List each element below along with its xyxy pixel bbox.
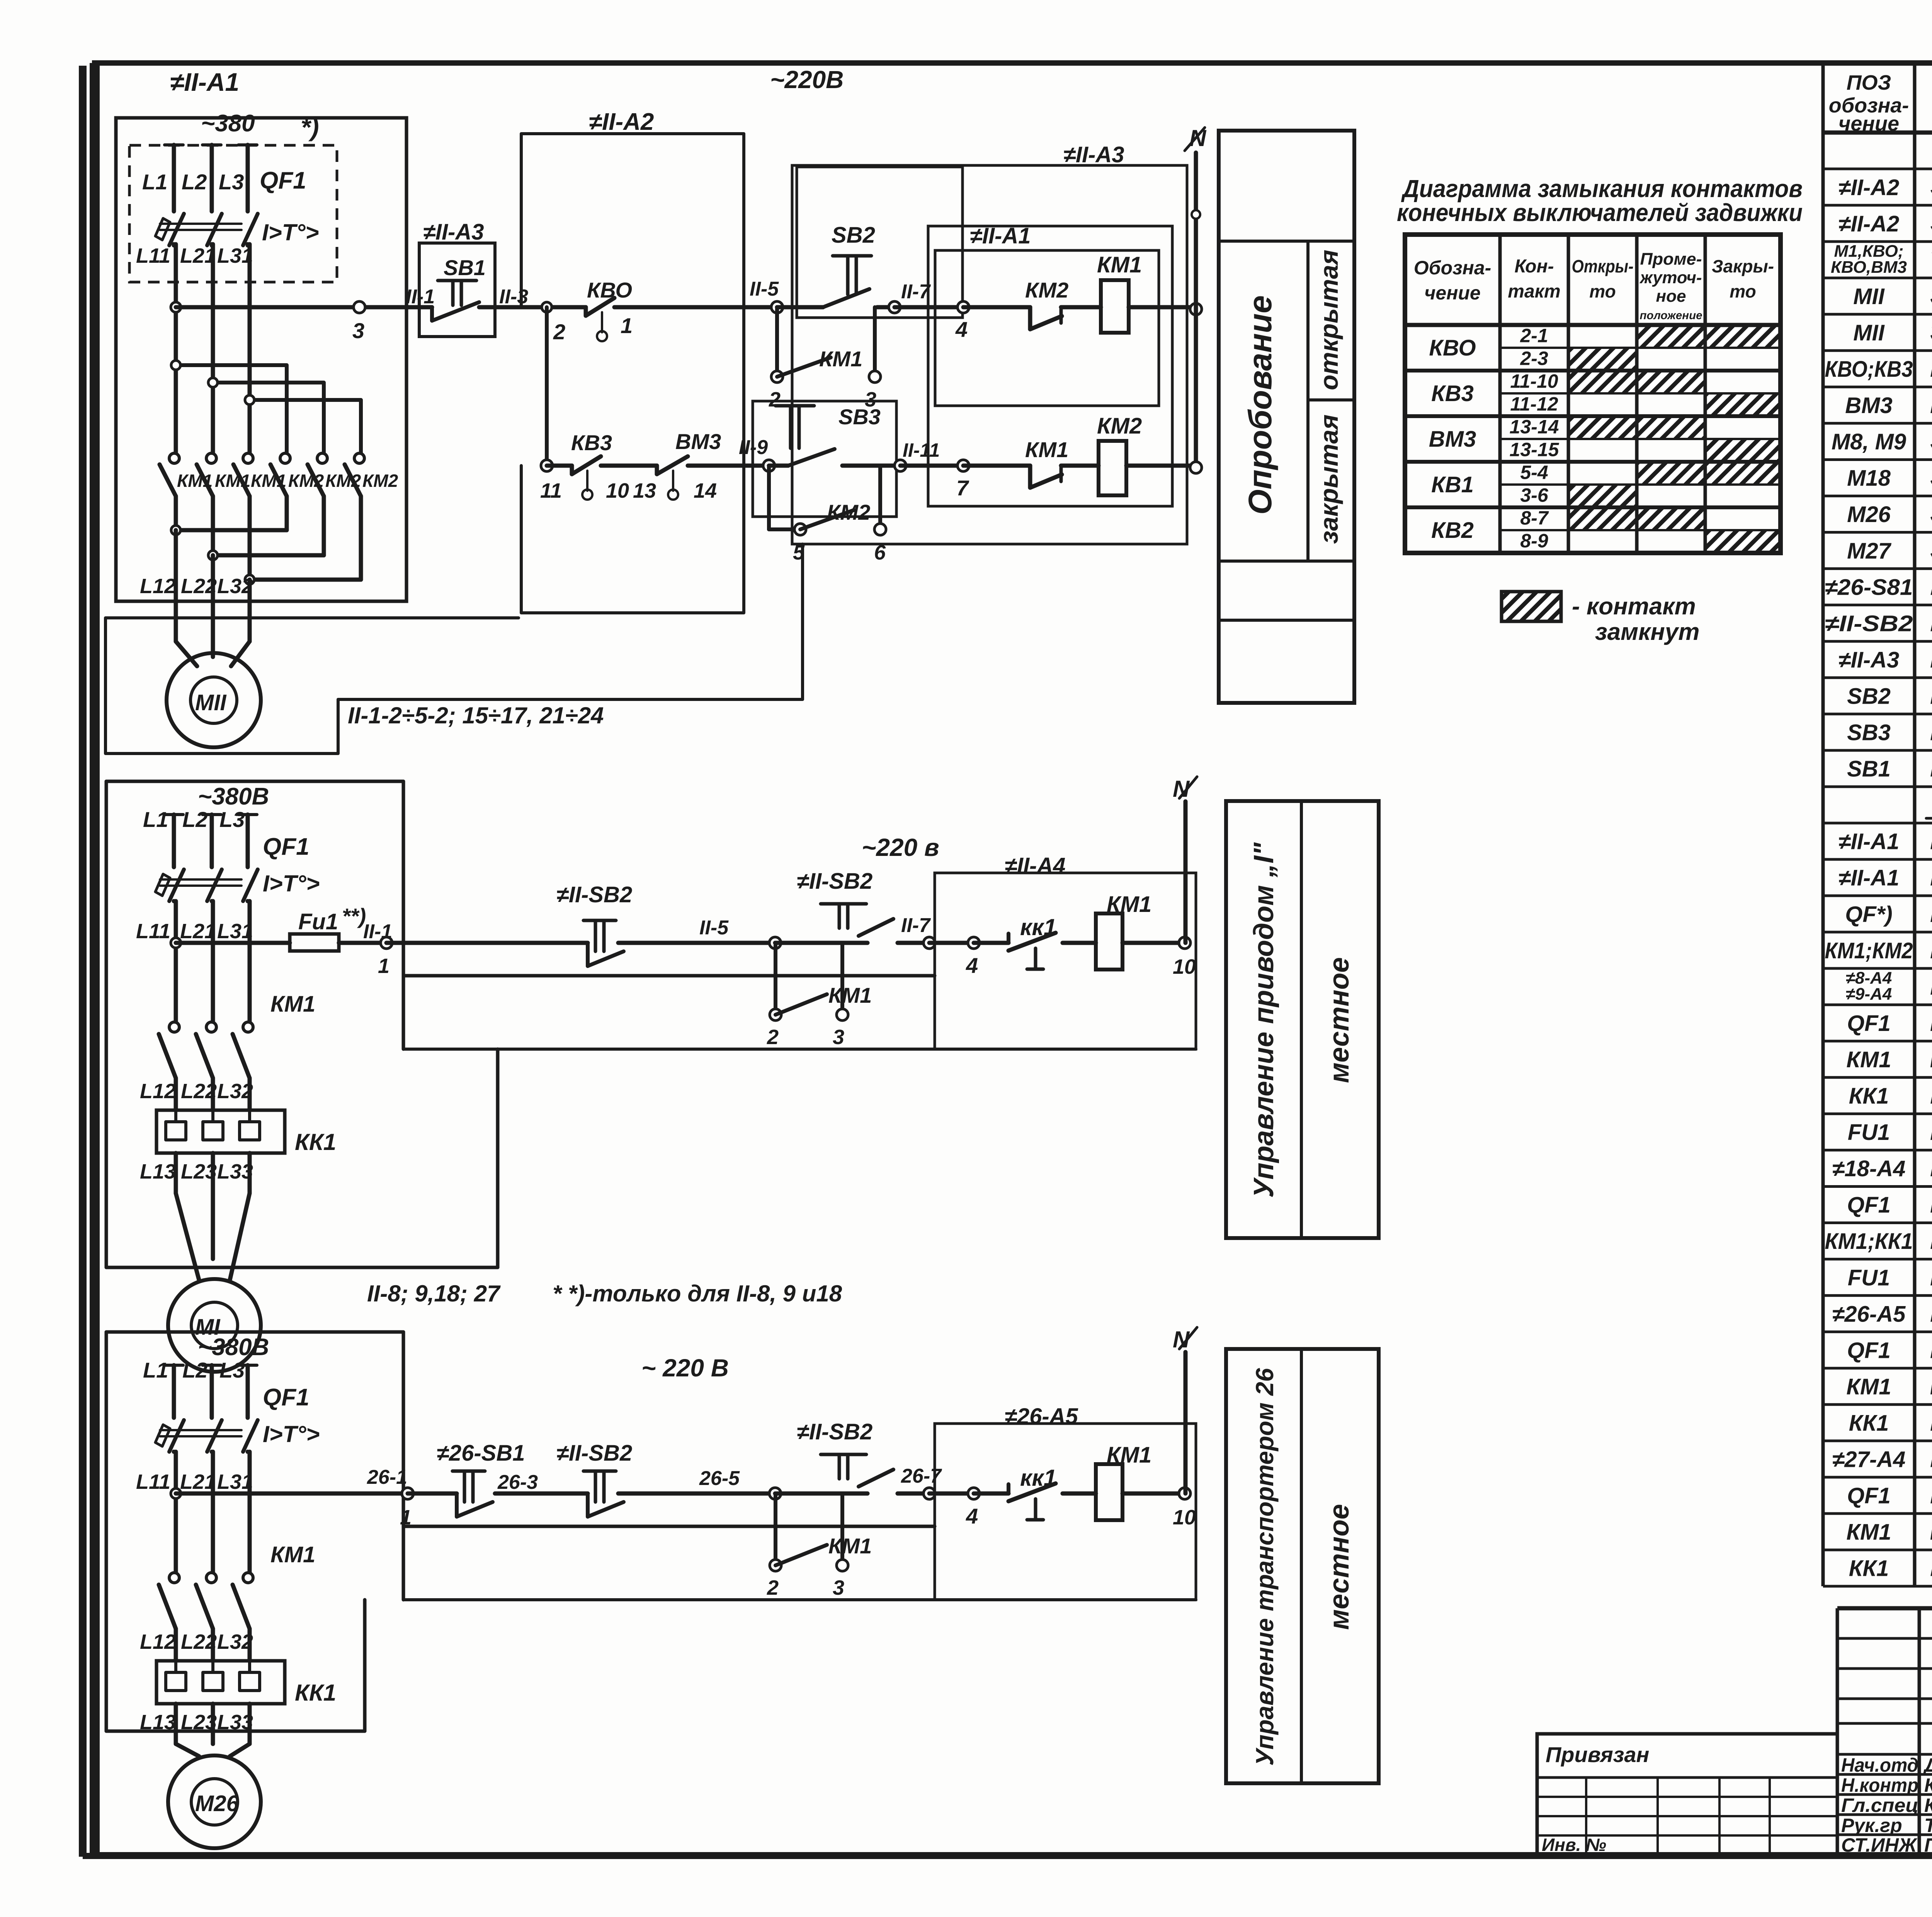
svg-text:≠II-А2: ≠II-А2 — [1838, 211, 1900, 236]
svg-text:Кудряшов: Кудряшов — [1924, 1774, 1932, 1796]
svg-text:≠II-А2: ≠II-А2 — [589, 109, 654, 135]
svg-text:≠II-А1: ≠II-А1 — [170, 68, 239, 96]
svg-text:13: 13 — [633, 479, 656, 502]
svg-text:26-3: 26-3 — [497, 1471, 538, 1493]
fuse FU1 body — [290, 934, 339, 951]
junction node to closing row — [542, 302, 552, 312]
stop button #II-SB2 symbol — [583, 919, 616, 922]
band 3 Upravlenie transporterom 26 box — [1226, 1349, 1379, 1783]
svg-text:М26: М26 — [195, 1791, 239, 1816]
block inner corner lines — [363, 1600, 367, 1731]
main control wire — [176, 1492, 408, 1496]
svg-text:Блок Б5130-3674УХЛ4: Блок Б5130-3674УХЛ4 — [1930, 1153, 1932, 1182]
svg-text:МII: МII — [1853, 284, 1885, 309]
stop button #II-SB2 symbol — [583, 1470, 616, 1473]
circuit breaker QF1 three poles — [165, 1364, 183, 1367]
node 26-1 — [402, 1488, 413, 1499]
svg-text:Привязан: Привязан — [1546, 1742, 1649, 1767]
frame left edge thick line — [90, 63, 100, 1855]
svg-text:Электродвигатель 4А180S4У3,~38: Электродвигатель 4А180S4У3,~380В; 22кВт — [1930, 463, 1932, 491]
svg-text:ПОЗ: ПОЗ — [1847, 71, 1891, 94]
svg-text:≠26-SB1: ≠26-SB1 — [437, 1441, 525, 1466]
svg-text:L11: L11 — [136, 1470, 170, 1493]
svg-text:SB2: SB2 — [832, 223, 875, 248]
svg-text:10: 10 — [606, 479, 629, 502]
wire KV3 to VM3 — [601, 464, 657, 468]
svg-text:КК1: КК1 — [1849, 1556, 1889, 1581]
svg-text:КК1: КК1 — [295, 1129, 336, 1155]
svg-text:ВМ3: ВМ3 — [1845, 393, 1892, 418]
svg-text:местное: местное — [1324, 957, 1355, 1083]
phase feeders down to KM1 poles — [174, 1452, 178, 1572]
svg-text:N1 - Ц, Ч, 2з, „откр": N1 - Ц, Ч, 2з, „откр" — [1930, 680, 1932, 709]
svg-text:≠II-А1: ≠II-А1 — [1838, 829, 1900, 854]
svg-text:≠II-А1: ≠II-А1 — [970, 223, 1031, 248]
privyazan box — [1537, 1734, 1837, 1855]
svg-text:5-4: 5-4 — [1520, 461, 1548, 483]
svg-text:МII: МII — [195, 690, 227, 715]
svg-text:N3 - Ц, К, 2р, „стоп": N3 - Ц, К, 2р, „стоп" — [1930, 754, 1932, 782]
svg-text:≠26-А5: ≠26-А5 — [1832, 1301, 1906, 1327]
block inner corner lines — [496, 1049, 500, 1267]
svg-text:L11: L11 — [136, 920, 170, 943]
branch wire down to closing row — [545, 307, 549, 466]
wire node 3 — [354, 301, 365, 313]
svg-text:II-5: II-5 — [750, 278, 779, 300]
svg-text:Пост ПКЕ 722-2У3, ТУ16.526: Пост ПКЕ 722-2У3, ТУ16.526 216-78 — [1930, 608, 1932, 636]
KM1 holding contact branch — [775, 307, 779, 377]
svg-text:L13: L13 — [140, 1160, 176, 1183]
node II-7 — [889, 301, 900, 313]
svg-text:I>T°>: I>T°> — [262, 219, 319, 245]
svg-text:чение: чение — [1838, 112, 1899, 135]
svg-text:≠9-А4: ≠9-А4 — [1846, 985, 1892, 1004]
svg-text:L3: L3 — [219, 1358, 245, 1382]
svg-text:4: 4 — [966, 1504, 978, 1528]
A-block box — [935, 1424, 1196, 1600]
svg-text:КМ1: КМ1 — [1846, 1047, 1891, 1072]
block #II-A1 outer enclosure — [928, 226, 1172, 506]
motor outer circle — [168, 1755, 261, 1848]
svg-text:L21: L21 — [180, 244, 216, 267]
svg-text:- контакт: - контакт — [1572, 593, 1696, 620]
motor inner circle — [191, 1779, 238, 1825]
svg-text:Управление приводом „I": Управление приводом „I" — [1248, 842, 1279, 1197]
svg-text:Выключатель АЕ2026-10НУ3Б, Iр=: Выключатель АЕ2026-10НУ3Б, Iр=10А — [1930, 899, 1932, 927]
svg-text:КМ2: КМ2 — [1097, 413, 1142, 439]
KM2 holding contact branch row2 — [767, 466, 771, 529]
supply enclosure — [106, 1330, 403, 1334]
svg-text:II-1: II-1 — [363, 920, 392, 943]
QF1 dashed enclosure — [129, 145, 337, 282]
frame left heavy scan bar — [79, 66, 87, 1857]
svg-text:L1: L1 — [143, 1358, 168, 1382]
svg-text:3: 3 — [833, 1026, 844, 1049]
svg-text:Опробование: Опробование — [1242, 295, 1278, 515]
svg-text:II-7: II-7 — [901, 281, 931, 303]
svg-text:SB3: SB3 — [1847, 720, 1891, 745]
svg-text:Пускатель ПМЛ2 10004В с приста: Пускатель ПМЛ2 10004В с приставкой ПКЛ22… — [1930, 1044, 1932, 1073]
svg-text:КВО: КВО — [1429, 335, 1476, 361]
svg-text:QF1: QF1 — [263, 833, 310, 860]
supply enclosure — [106, 780, 403, 783]
svg-text:2: 2 — [767, 1576, 779, 1599]
svg-text:Предохранитель ППТ-10у3, Iпл: Предохранитель ППТ-10у3, Iпл вст=6А — [1930, 1117, 1932, 1145]
svg-text:Техническое описание электроп: Техническое описание электропривода — [1930, 245, 1932, 273]
svg-text:QF1: QF1 — [1847, 1483, 1891, 1509]
circuit breaker QF1 three poles — [165, 813, 183, 816]
svg-text:II-11: II-11 — [903, 439, 940, 461]
node II-7 / 26-7 — [923, 937, 935, 949]
closing row start node — [541, 460, 553, 471]
svg-text:L21: L21 — [180, 1470, 216, 1493]
title block signature table verticals — [1836, 1608, 1839, 1855]
svg-text:SB1: SB1 — [1847, 757, 1891, 782]
svg-text:Закры-: Закры- — [1712, 256, 1774, 276]
svg-text:10: 10 — [1173, 955, 1196, 978]
svg-text:SB3: SB3 — [838, 405, 881, 429]
svg-text:SB1: SB1 — [444, 255, 486, 280]
block bottom edge — [106, 1730, 365, 1733]
svg-text:FU1: FU1 — [1848, 1120, 1890, 1145]
wire to node 4 — [895, 305, 963, 310]
svg-text:Блок Б5438-3074гухл4: Блок Б5438-3074гухл4 — [1930, 862, 1932, 891]
wire to node 4 — [929, 1492, 974, 1496]
svg-text:L1: L1 — [143, 807, 168, 832]
svg-text:КВО,ВМ3: КВО,ВМ3 — [1831, 258, 1907, 277]
svg-text:QF*): QF*) — [1845, 902, 1892, 927]
svg-text:Выключатель конечный: Выключатель конечный — [1930, 354, 1932, 382]
wire to node 7 — [900, 464, 963, 468]
svg-text:Пускатель ПМА 3202-УХЛ4В, Iн.: Пускатель ПМА 3202-УХЛ4В, Iн.э=40А — [1930, 1226, 1932, 1254]
clutch switch VM3 contact 13-14 — [655, 466, 659, 474]
thermal relay contact KK1 — [974, 941, 1009, 945]
frame bottom heavy line — [83, 1853, 1932, 1859]
station box #II-A3 outer — [792, 165, 1187, 544]
wire VM3 to II-9 — [688, 464, 769, 468]
svg-text:такт: такт — [1508, 281, 1560, 302]
svg-text:L22: L22 — [181, 1080, 217, 1103]
svg-text:8-7: 8-7 — [1520, 507, 1549, 529]
svg-text:*): *) — [301, 113, 319, 141]
svg-text:КВ3: КВ3 — [571, 430, 612, 455]
open button SB2 box — [797, 167, 963, 318]
svg-text:≠II-А2: ≠II-А2 — [1838, 175, 1900, 200]
svg-text:L1: L1 — [142, 170, 167, 194]
block bottom edge — [106, 1266, 498, 1269]
svg-text:4: 4 — [966, 953, 978, 978]
block #II-A2 enclosure — [521, 134, 744, 613]
contactor KM1 pole contacts — [169, 1573, 179, 1583]
svg-text:13-14: 13-14 — [1510, 416, 1559, 437]
svg-text:КМ2: КМ2 — [827, 500, 870, 524]
svg-text:QF1: QF1 — [1847, 1192, 1891, 1218]
svg-text:Блок Б5130-3474УХЛ4: Блок Б5130-3474УХЛ4 — [1930, 971, 1932, 1000]
svg-text:КМ1: КМ1 — [1846, 1374, 1891, 1399]
svg-text:открытая: открытая — [1315, 250, 1343, 390]
svg-text:≠II-SB2: ≠II-SB2 — [556, 1441, 632, 1466]
svg-text:~ 220 В: ~ 220 В — [641, 1354, 729, 1382]
svg-text:L2: L2 — [182, 807, 207, 832]
svg-text:1: 1 — [378, 954, 389, 978]
svg-text:Электродвигатель 4А160S6У3,~38: Электродвигатель 4А160S6У3,~380В, 11квт. — [1930, 426, 1932, 455]
svg-text:КМ2: КМ2 — [325, 471, 361, 491]
svg-text:Нач.отд: Нач.отд — [1841, 1754, 1918, 1776]
contactor KM1 pole contacts — [169, 1022, 179, 1032]
node II-7 / 26-7 — [923, 1488, 935, 1499]
svg-text:Пускатель ПМЛ150 104В,~220в: Пускатель ПМЛ150 104В,~220в — [1930, 935, 1932, 964]
svg-text:10: 10 — [1173, 1506, 1196, 1529]
svg-text:L3: L3 — [219, 807, 245, 832]
svg-text:замкнут: замкнут — [1595, 619, 1699, 645]
svg-text:11-10: 11-10 — [1510, 370, 1558, 392]
close button SB3 symbol — [776, 404, 814, 408]
feeders to motor — [174, 1704, 178, 1744]
svg-text:I>T°>: I>T°> — [263, 871, 320, 896]
node II-5 / 26-5 — [769, 937, 781, 949]
svg-text:КК1: КК1 — [1849, 1410, 1889, 1436]
main control wire — [176, 941, 290, 945]
svg-text:КМ1: КМ1 — [828, 1534, 872, 1558]
thermal relay KK1 heater box — [156, 1661, 285, 1704]
svg-text:II-8; 9,18; 27: II-8; 9,18; 27 — [367, 1281, 501, 1306]
svg-text:Откры-: Откры- — [1572, 256, 1634, 276]
svg-text:3: 3 — [833, 1576, 844, 1599]
svg-text:≠II-SB2: ≠II-SB2 — [1825, 611, 1913, 636]
svg-text:Электродвигатель 4АХС100S4У3,: Электродвигатель 4АХС100S4У3,~380В, 3,2 … — [1930, 281, 1932, 310]
svg-text:L2: L2 — [182, 1358, 207, 1382]
spec table row lines — [1823, 168, 1932, 170]
block #II-A1 enclosure — [116, 118, 406, 601]
svg-text:≠II-А4: ≠II-А4 — [1005, 853, 1066, 878]
svg-text:КМ1: КМ1 — [1025, 437, 1068, 462]
start button #II-SB2 symbol — [821, 1453, 866, 1456]
svg-text:Инв. №: Инв. № — [1542, 1835, 1606, 1855]
svg-text:КМ1: КМ1 — [270, 992, 315, 1017]
svg-text:КМ1: КМ1 — [270, 1542, 315, 1567]
control tap node on L11 — [171, 938, 181, 948]
svg-text:≠18-А4: ≠18-А4 — [1832, 1156, 1906, 1181]
svg-text:2-3: 2-3 — [1520, 347, 1548, 369]
motor inner circle — [191, 1302, 238, 1349]
svg-text:Электродвигатель 4А112МВ6У3,~3: Электродвигатель 4А112МВ6У3,~380В, 4,0кв… — [1930, 499, 1932, 527]
node 4 row1 — [957, 301, 969, 313]
svg-text:КВ1: КВ1 — [1431, 472, 1474, 497]
svg-text:КК1: КК1 — [295, 1680, 336, 1706]
neutral N line — [1184, 801, 1188, 943]
svg-text:L32: L32 — [217, 1080, 253, 1103]
svg-text:КМ1: КМ1 — [215, 471, 250, 491]
svg-text:КМ1;КК1: КМ1;КК1 — [1825, 1229, 1913, 1254]
svg-text:QF1: QF1 — [1847, 1338, 1891, 1363]
svg-text:Электропривод 87В085: Электропривод 87В085 — [1930, 172, 1932, 201]
svg-text:Пускатель ПМЛ 11000 4В с прист: Пускатель ПМЛ 11000 4В с приставкой ПКЛ2… — [1930, 1517, 1932, 1545]
KM1 holding contact branch — [774, 943, 777, 1015]
svg-text:ВМ3: ВМ3 — [675, 429, 721, 454]
svg-text:КМ2: КМ2 — [288, 471, 324, 491]
legend hatched box kontakt zamknut — [1502, 592, 1561, 621]
node 10 — [1179, 1488, 1190, 1499]
svg-text:закрытая: закрытая — [1315, 415, 1343, 544]
contactor pole contacts KM1 KM1 KM1 KM2 KM2 KM2 — [169, 453, 179, 463]
svg-text:~380: ~380 — [201, 110, 255, 137]
start button #II-SB2 symbol — [821, 902, 866, 906]
svg-text:Долотов: Долотов — [1923, 1754, 1932, 1776]
svg-text:2: 2 — [767, 1026, 779, 1049]
band 1 inner lines — [1219, 240, 1354, 243]
thermal relay contact KK1 — [974, 1492, 1009, 1496]
svg-text:11: 11 — [540, 479, 562, 502]
svg-text:13-15: 13-15 — [1510, 439, 1560, 460]
svg-text:L21: L21 — [180, 920, 216, 943]
privyazan grid — [1537, 1776, 1837, 1779]
svg-text:≠27-А4: ≠27-А4 — [1832, 1447, 1906, 1472]
svg-text:Выключатель АЕ2046М-10РУ3-Б, I: Выключатель АЕ2046М-10РУ3-Б, Iр-31,5А — [1930, 1008, 1932, 1036]
wire to node 4 — [929, 941, 974, 945]
svg-text:4: 4 — [955, 317, 968, 342]
svg-text:QF1: QF1 — [1847, 1011, 1891, 1036]
limit switch KV3 contact 11-10 — [570, 466, 574, 474]
svg-text:Реле тепловое РТЛ102204с, Iн: Реле тепловое РТЛ102204с, Iнэ =25А — [1930, 1080, 1932, 1109]
svg-text:Электропривод 87Б015: Электропривод 87Б015 — [1930, 208, 1932, 237]
svg-text:L12: L12 — [140, 1630, 176, 1653]
phase feeders down to KM1 poles — [174, 901, 178, 1022]
svg-text:Электродвигатель 4А80В4У3,~380: Электродвигатель 4А80В4У3,~380В, 1.5квт — [1930, 535, 1932, 564]
svg-text:Блок Б5130--2674 гухл4: Блок Б5130--2674 гухл4 — [1930, 1444, 1932, 1473]
svg-text:М26: М26 — [1847, 502, 1891, 527]
node II-5 / 26-5 — [769, 1488, 781, 1499]
svg-text:Управление транспортером 26: Управление транспортером 26 — [1251, 1368, 1279, 1766]
svg-text:Пост ПКЕ 222-1У3, 1/2 , Гр, К,: Пост ПКЕ 222-1У3, 1/2 , Гр, К, 2р — [1930, 572, 1932, 600]
svg-text:Пост ПКЕ 222-3У3, 3/4" ;: Пост ПКЕ 222-3У3, 3/4" ; — [1930, 644, 1932, 673]
svg-text:Проме-: Проме- — [1640, 250, 1702, 269]
svg-text:≠II-SB2: ≠II-SB2 — [797, 869, 872, 894]
close button SB3 box — [753, 401, 896, 517]
motor MII outer circle — [167, 653, 261, 747]
svg-text:II-7: II-7 — [901, 914, 931, 937]
svg-text:QF1: QF1 — [263, 1384, 310, 1411]
svg-text:М8, М9: М8, М9 — [1832, 429, 1906, 454]
svg-text:3: 3 — [352, 318, 364, 343]
contact diagram hatched cells — [1637, 325, 1705, 348]
svg-text:КВ3: КВ3 — [1431, 381, 1474, 406]
svg-text:КМ1: КМ1 — [828, 983, 872, 1007]
svg-text:L32: L32 — [217, 1630, 253, 1653]
circuit breaker QF1 three poles — [165, 143, 183, 146]
svg-text:КМ2: КМ2 — [362, 471, 398, 491]
svg-text:SB2: SB2 — [1847, 684, 1891, 709]
svg-text:то: то — [1730, 281, 1756, 301]
motor outer circle — [168, 1279, 261, 1372]
svg-text:Обозна-: Обозна- — [1414, 257, 1492, 279]
svg-text:11-12: 11-12 — [1510, 393, 1558, 415]
svg-text:Кон-: Кон- — [1515, 256, 1554, 277]
wire KVO to node II-5 — [614, 305, 777, 310]
station box #II-A3 with SB1 — [419, 243, 495, 337]
svg-text:Рук.гр: Рук.гр — [1841, 1815, 1902, 1836]
svg-text:≠II-А3: ≠II-А3 — [1838, 647, 1900, 672]
node 10 — [1179, 937, 1190, 949]
svg-text:≠II-А3: ≠II-А3 — [1063, 142, 1124, 167]
svg-text:М27: М27 — [1847, 538, 1892, 563]
svg-text:≠II-А3: ≠II-А3 — [423, 219, 484, 245]
motor feeders to MII — [174, 530, 178, 641]
svg-text:Выключатель АЕ 2026-10НУ3-Б,: Выключатель АЕ 2026-10НУ3-Б, Iр=5А — [1930, 1480, 1932, 1509]
svg-text:жуточ-: жуточ- — [1639, 268, 1702, 287]
svg-text:L12: L12 — [140, 575, 176, 598]
node 4 — [968, 1488, 980, 1499]
svg-text:~220В: ~220В — [770, 66, 844, 94]
svg-text:МII: МII — [1853, 320, 1885, 345]
svg-text:Предохранитель ППТ 10У3, Iпл: Предохранитель ППТ 10У3, Iпл вст.=6А — [1930, 1262, 1932, 1291]
limit switch KVO contact 2-1 — [584, 307, 588, 316]
control wire row1 to stop button — [176, 305, 419, 310]
svg-text:QF1: QF1 — [260, 167, 306, 194]
band 2 Upravlenie privodom I box — [1226, 801, 1379, 1238]
svg-text:L2: L2 — [182, 170, 207, 194]
svg-text:КК1: КК1 — [1849, 1084, 1889, 1109]
crossover feeders to reversing poles — [176, 363, 287, 367]
svg-text:Блок Б 5130-3074гухл4: Блок Б 5130-3074гухл4 — [1930, 1298, 1932, 1327]
svg-text:II-5: II-5 — [699, 917, 729, 939]
svg-text:≠II-SB2: ≠II-SB2 — [556, 882, 632, 907]
svg-text:L12: L12 — [140, 1080, 176, 1103]
contactor coil KM1 — [1096, 913, 1122, 970]
svg-text:~220 в: ~220 в — [862, 833, 939, 861]
svg-text:* *)-только для II-8, 9 и18: * *)-только для II-8, 9 и18 — [553, 1281, 842, 1306]
stop button 26-SB1 symbol — [452, 1470, 485, 1473]
svg-text:КМ1;КМ2: КМ1;КМ2 — [1825, 938, 1913, 963]
stop button SB1 symbol — [438, 279, 476, 282]
step line to A-block — [403, 974, 935, 978]
svg-text:конечных выключателей задвижки: конечных выключателей задвижки — [1397, 199, 1803, 226]
svg-text:ное: ное — [1656, 287, 1686, 306]
svg-text:Fu1: Fu1 — [298, 909, 338, 934]
svg-text:II-1-2÷5-2; 15÷17, 21÷24: II-1-2÷5-2; 15÷17, 21÷24 — [348, 703, 604, 728]
svg-text:М18: М18 — [1847, 466, 1891, 491]
svg-text:6: 6 — [874, 541, 886, 564]
control tap node on L11 — [171, 1488, 181, 1499]
svg-text:местное: местное — [1324, 1504, 1355, 1630]
svg-text:Кудряшов: Кудряшов — [1924, 1795, 1932, 1816]
svg-text:N2 - Ц, Ч, 2з, „закр": N2 - Ц, Ч, 2з, „закр" — [1930, 717, 1932, 746]
svg-text:3-6: 3-6 — [1520, 484, 1548, 506]
thermal relay KK1 heater box — [156, 1110, 285, 1153]
svg-text:8-9: 8-9 — [1520, 530, 1548, 551]
svg-text:1: 1 — [400, 1506, 412, 1529]
svg-text:Выключатель АЕ2026-10НУ3-Б,: Выключатель АЕ2026-10НУ3-Б, Iр=12,5А — [1930, 1335, 1932, 1363]
svg-text:Гл.спец: Гл.спец — [1841, 1795, 1918, 1816]
svg-text:Электродвигатель 4АХС71А-4У3,: Электродвигатель 4АХС71А-4У3,~380В, 0,6 … — [1930, 317, 1932, 346]
node II-9 — [763, 460, 775, 471]
open button SB2 symbol — [833, 254, 871, 258]
motor MII inner circle — [190, 677, 237, 723]
svg-text:2-1: 2-1 — [1520, 325, 1548, 346]
neutral N line circuit1 — [1194, 153, 1198, 466]
node 4 — [968, 937, 980, 949]
neutral N line — [1184, 1352, 1188, 1493]
spec table outer grid verticals — [1821, 63, 1825, 1586]
svg-text:14: 14 — [694, 479, 717, 502]
svg-text:≠26-S81: ≠26-S81 — [1825, 575, 1913, 600]
svg-text:КМ1: КМ1 — [1846, 1520, 1891, 1545]
svg-text:СТ.ИНЖ: СТ.ИНЖ — [1841, 1834, 1918, 1856]
svg-text:КМ1: КМ1 — [819, 347, 862, 371]
svg-text:Пускатель ПМЛ11000 4В с прист: Пускатель ПМЛ11000 4В с приставкой ПКЛ20… — [1930, 1371, 1932, 1400]
svg-text:7: 7 — [956, 476, 969, 500]
contactor coil KM1 — [1096, 1464, 1122, 1520]
motor MII enclosure — [105, 544, 803, 754]
